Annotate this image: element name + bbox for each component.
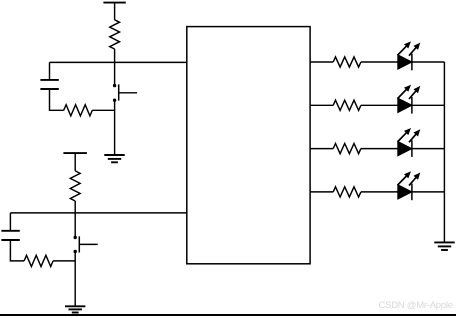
LED D4 bbox=[398, 171, 421, 200]
bottom border line bbox=[0, 314, 456, 316]
wire S1 to ground1 bbox=[114, 100, 116, 155]
wire R2 to S1 node bbox=[92, 109, 114, 111]
pushbutton S1 actuator bar bbox=[118, 84, 120, 100]
wire R5 to LED D1 bbox=[361, 61, 398, 63]
wire node2 horizontal bbox=[10, 212, 187, 214]
resistor R1 bbox=[110, 20, 120, 49]
LED D1 bbox=[398, 41, 421, 70]
wire S2 to ground2 bbox=[74, 252, 76, 307]
wire VCC2 to R3 bbox=[74, 153, 76, 171]
LED D2 bbox=[398, 85, 421, 114]
ground 3 bbox=[434, 241, 454, 243]
resistor R2 bbox=[64, 105, 93, 116]
wire U1 to R7 bbox=[310, 148, 333, 150]
pushbutton S1 terminal dot bottom bbox=[113, 99, 116, 102]
resistor R7 bbox=[333, 144, 361, 154]
wire LED D1 to rail bbox=[412, 61, 445, 63]
resistor R8 bbox=[333, 187, 361, 197]
wire LED D2 to rail bbox=[412, 104, 445, 106]
power rail VCC1 bbox=[103, 2, 125, 4]
ground 2 bbox=[65, 305, 85, 307]
pushbutton S1 stem bbox=[119, 92, 137, 94]
LED D3 bbox=[398, 128, 421, 157]
wire U1 to R8 bbox=[310, 191, 333, 193]
wire R3 to node2 bbox=[74, 201, 76, 213]
wire node1 horizontal bbox=[50, 61, 188, 63]
wire R1 to node1 bbox=[114, 49, 116, 62]
IC U1 bbox=[187, 27, 310, 264]
power rail VCC2 bbox=[63, 152, 87, 154]
watermark text bbox=[379, 300, 453, 311]
resistor R5 bbox=[333, 57, 361, 67]
wire U1 to R5 bbox=[310, 61, 333, 63]
wire R6 to LED D2 bbox=[361, 104, 398, 106]
capacitor C2 bbox=[1, 230, 19, 232]
wire node2 to C2 bbox=[9, 213, 11, 231]
pushbutton S2 terminal dot top bbox=[74, 236, 77, 239]
wire node1 to S1 bbox=[114, 62, 116, 85]
resistor R4 bbox=[24, 255, 53, 266]
pushbutton S2 stem bbox=[79, 243, 97, 245]
wire C2 to R4 bbox=[10, 240, 24, 261]
pushbutton S2 terminal dot bottom bbox=[74, 250, 77, 253]
wire C1 to R2 bbox=[50, 89, 64, 110]
wire node1 to C1 bbox=[49, 62, 51, 80]
wire R7 to LED D3 bbox=[361, 148, 398, 150]
pushbutton S1 terminal dot top bbox=[113, 84, 116, 87]
wire right rail bbox=[443, 62, 445, 242]
wire U1 to R6 bbox=[310, 104, 333, 106]
wire LED D3 to rail bbox=[412, 148, 445, 150]
resistor R6 bbox=[333, 100, 361, 110]
ground 1 bbox=[104, 154, 124, 156]
resistor R3 bbox=[70, 171, 80, 201]
wire R4 to S2 node bbox=[53, 260, 75, 262]
pushbutton S2 actuator bar bbox=[78, 236, 80, 252]
wire R8 to LED D4 bbox=[361, 191, 398, 193]
wire VCC1 to R1 bbox=[114, 3, 116, 20]
capacitor C1 bbox=[40, 79, 58, 81]
wire LED D4 to rail bbox=[412, 191, 445, 193]
wire node2 to S2 bbox=[74, 213, 76, 237]
